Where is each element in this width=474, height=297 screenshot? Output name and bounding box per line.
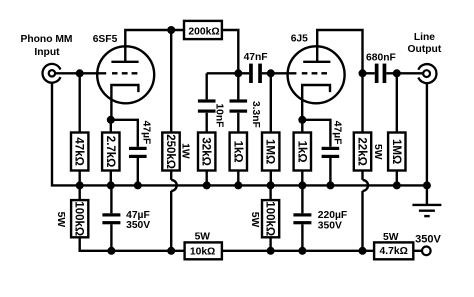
svg-text:22kΩ: 22kΩ: [355, 137, 367, 165]
svg-text:1MΩ: 1MΩ: [264, 139, 276, 164]
svg-text:5W: 5W: [55, 212, 66, 228]
svg-text:Phono MM: Phono MM: [20, 34, 72, 45]
svg-text:1kΩ: 1kΩ: [231, 141, 243, 163]
svg-text:Output: Output: [408, 44, 442, 55]
svg-text:3.3nF: 3.3nF: [250, 101, 261, 128]
svg-text:47µF: 47µF: [141, 121, 152, 145]
svg-text:47kΩ: 47kΩ: [73, 137, 85, 165]
svg-text:5W: 5W: [195, 232, 211, 243]
svg-text:Input: Input: [34, 47, 60, 58]
svg-text:10nF: 10nF: [214, 103, 225, 127]
svg-text:6SF5: 6SF5: [93, 34, 118, 45]
svg-text:5W: 5W: [372, 144, 383, 160]
svg-text:350V: 350V: [415, 234, 441, 246]
svg-text:47nF: 47nF: [244, 52, 268, 63]
svg-text:680nF: 680nF: [366, 52, 396, 63]
svg-text:100kΩ: 100kΩ: [264, 201, 276, 236]
svg-text:250kΩ: 250kΩ: [164, 134, 176, 169]
svg-text:200kΩ: 200kΩ: [188, 27, 219, 38]
svg-text:32kΩ: 32kΩ: [200, 137, 212, 165]
svg-text:350V: 350V: [126, 220, 150, 231]
svg-text:47µF: 47µF: [331, 121, 342, 145]
svg-text:10kΩ: 10kΩ: [190, 246, 215, 257]
svg-text:220µF: 220µF: [318, 210, 347, 221]
svg-text:1kΩ: 1kΩ: [295, 141, 307, 163]
svg-text:2.7kΩ: 2.7kΩ: [104, 136, 116, 168]
svg-text:5W: 5W: [249, 212, 260, 228]
svg-text:4.7kΩ: 4.7kΩ: [380, 246, 408, 257]
svg-text:100kΩ: 100kΩ: [73, 201, 85, 236]
svg-text:5W: 5W: [383, 232, 399, 243]
svg-text:6J5: 6J5: [291, 34, 308, 45]
svg-text:1MΩ: 1MΩ: [390, 139, 402, 164]
svg-text:1W: 1W: [179, 143, 190, 159]
svg-text:350V: 350V: [318, 220, 342, 231]
svg-text:Line: Line: [414, 32, 435, 43]
